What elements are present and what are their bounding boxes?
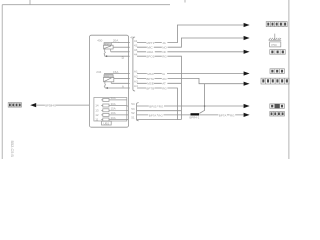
- arrow 3: [244, 50, 250, 54]
- wire BPTB-RG: [137, 88, 181, 120]
- svg-text:RG: RG: [230, 114, 235, 118]
- relay K1: [104, 43, 114, 49]
- relay K2: [104, 75, 114, 82]
- dest box 40S: [270, 50, 285, 55]
- wire K1 out 2: [113, 46, 129, 48]
- svg-text:20A: 20A: [111, 116, 116, 120]
- ground P50: [269, 34, 282, 47]
- dest box 240: [270, 104, 285, 108]
- arrow 5: [244, 82, 250, 86]
- wire splice out BPTA-RG: [199, 114, 244, 116]
- svg-text:51: 51: [131, 116, 135, 120]
- fuse F5: [101, 98, 127, 101]
- svg-text:MPT1: MPT1: [146, 41, 154, 45]
- fuse F1: [101, 118, 127, 121]
- dest box B30: [270, 69, 284, 74]
- dest box BB31B4G: [261, 78, 289, 84]
- relay K2 switch pin: [104, 82, 111, 88]
- wire K1 out 1: [111, 42, 128, 44]
- splice BPR4: [191, 113, 200, 115]
- arrow left: [30, 103, 36, 107]
- svg-text:JPM: JPM: [105, 44, 109, 46]
- svg-text:52: 52: [131, 111, 135, 115]
- svg-text:20A: 20A: [113, 39, 118, 43]
- svg-text:13: 13: [95, 108, 99, 112]
- svg-text:450: 450: [97, 39, 102, 43]
- junction dot: [106, 55, 108, 57]
- svg-text:B52-C5 B: B52-C5 B: [10, 141, 14, 158]
- connector ref box left: [8, 103, 21, 108]
- fuse table box: [94, 98, 127, 122]
- svg-text:P50: P50: [271, 43, 277, 47]
- svg-text:12: 12: [95, 113, 99, 117]
- svg-text:MSC: MSC: [147, 72, 155, 76]
- wire K1 out 4: [105, 55, 129, 57]
- relay K1 switch pin: [104, 49, 111, 56]
- branch to splice: [199, 84, 204, 114]
- svg-text:NO: NO: [162, 46, 167, 50]
- svg-text:15A: 15A: [111, 107, 116, 111]
- leader 20A: [118, 41, 120, 44]
- arrow 1: [244, 23, 250, 27]
- svg-text:RG: RG: [159, 104, 164, 108]
- arrow 6: [244, 104, 250, 108]
- junction dot: [204, 105, 206, 107]
- svg-text:100A: 100A: [146, 50, 153, 54]
- pin numbers: [131, 39, 138, 120]
- svg-text:BPTA: BPTA: [149, 113, 157, 117]
- connector CN 40: [133, 37, 135, 91]
- svg-text:JA: JA: [162, 41, 166, 45]
- svg-text:RG: RG: [158, 113, 163, 117]
- svg-text:RG: RG: [162, 55, 167, 59]
- wire pin51: [137, 119, 177, 121]
- svg-text:30A: 30A: [111, 102, 116, 106]
- wire BPO1-RG: [137, 56, 181, 119]
- wire BP05-RG: [137, 105, 244, 107]
- arrow 2: [244, 36, 250, 40]
- wire 100A-OF: [137, 51, 244, 53]
- connector CN bottom: [136, 103, 138, 121]
- svg-text:MSE: MSE: [147, 82, 154, 86]
- pin stubs: [127, 43, 130, 120]
- svg-text:BPTA: BPTA: [146, 77, 154, 81]
- wire BPTA-RG to splice: [137, 114, 191, 116]
- wire MIC-NO: [137, 38, 244, 47]
- dest box B31B: [270, 112, 285, 117]
- wire K1 out 3: [111, 51, 129, 53]
- svg-text:4G: 4G: [53, 103, 57, 107]
- wire K2 out 2: [114, 77, 129, 79]
- wire BP34 to fusebox: [36, 104, 89, 106]
- wire K2 out 3: [111, 82, 128, 84]
- svg-text:BPR4-1: BPR4-1: [190, 116, 200, 120]
- svg-text:50A: 50A: [111, 96, 116, 100]
- arrow 4: [244, 71, 250, 75]
- svg-text:AT: AT: [162, 82, 166, 86]
- svg-text:BPO1: BPO1: [146, 55, 154, 59]
- svg-text:BP3B: BP3B: [45, 103, 52, 107]
- wire BPTA-AN: [137, 78, 244, 83]
- svg-text:OF: OF: [162, 50, 166, 54]
- wire MSC-IA: [137, 73, 244, 75]
- wire MPT1-JA: [137, 25, 244, 43]
- svg-text:UB1: UB1: [103, 121, 109, 125]
- svg-text:AN: AN: [162, 77, 166, 81]
- wire K2 out 4: [105, 87, 129, 89]
- wire MSE-AT: [137, 82, 181, 84]
- svg-text:IA: IA: [162, 72, 165, 76]
- fuse F4: [101, 104, 127, 107]
- svg-text:234: 234: [96, 70, 101, 74]
- svg-text:54: 54: [131, 102, 135, 106]
- svg-text:JPM: JPM: [105, 76, 109, 78]
- fuse F3: [101, 109, 127, 112]
- label UB1: [102, 121, 112, 125]
- wire K2 out 1: [104, 73, 129, 75]
- svg-text:MIC: MIC: [147, 46, 153, 50]
- svg-text:RG: RG: [162, 86, 167, 90]
- svg-text:BP05: BP05: [149, 104, 157, 108]
- svg-text:BPTB: BPTB: [146, 86, 154, 90]
- svg-text:BPTA: BPTA: [219, 114, 227, 118]
- svg-text:11: 11: [95, 118, 98, 122]
- svg-text:10A: 10A: [111, 111, 116, 115]
- svg-text:A: A: [122, 84, 124, 88]
- fusebox U1: [89, 35, 128, 127]
- arrow 7: [244, 113, 250, 117]
- dest box BB31B: [266, 22, 287, 27]
- wire pin53: [137, 110, 181, 112]
- svg-text:14: 14: [95, 104, 99, 108]
- junction dot: [106, 87, 108, 89]
- fuse F2: [101, 113, 127, 116]
